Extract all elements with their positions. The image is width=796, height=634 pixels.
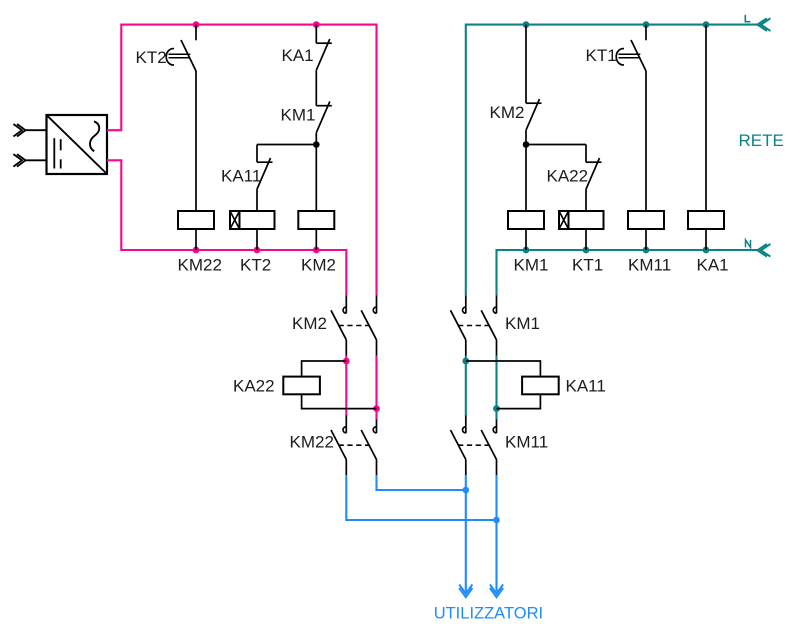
wire KM2 pole 2 to KM22 pole 2 (black upper) bbox=[376, 340, 378, 356]
svg-text:KA11: KA11 bbox=[221, 167, 261, 186]
svg-text:KM2: KM2 bbox=[490, 103, 525, 122]
wire KA11 coil bottom connection bbox=[497, 394, 541, 408]
timer coil KT1 with delay box bbox=[569, 211, 604, 229]
wire KM2 pole 1 to KM22 pole 1 (black upper) bbox=[345, 340, 347, 356]
svg-text:KM2: KM2 bbox=[301, 256, 336, 275]
wire KM2 pole 2 to KM22 pole 2 (magenta) bbox=[375, 356, 377, 420]
wire KM2 pole 2 to KM22 pole 2 (black lower) bbox=[376, 420, 378, 434]
wire KA11 to KT2 coil bbox=[256, 189, 258, 211]
wire blue KM22 pole 2 to load bus bbox=[377, 475, 466, 490]
wire teal L rail (to KM1 pole 1) bbox=[466, 25, 758, 296]
wire KM1 pole 1 to KM11 pole 1 (black upper) bbox=[465, 340, 467, 356]
svg-text:KM1: KM1 bbox=[514, 256, 549, 275]
label N bbox=[746, 240, 751, 248]
input terminal arrow 1 bbox=[26, 129, 47, 131]
wire blue load feeder 2 bbox=[495, 475, 497, 591]
wire KM2 pole 1 to KM22 pole 1 (black lower) bbox=[345, 416, 347, 434]
contact KM1 (NO, auxiliary) bbox=[316, 105, 332, 107]
wire KM22 coil to bottom rail bbox=[195, 229, 197, 250]
input terminal arrow 2 bbox=[26, 159, 47, 161]
coil KA1 bbox=[688, 211, 724, 229]
node load bus junction 1 bbox=[463, 487, 470, 494]
main contact KM1 pole 2 bbox=[496, 295, 498, 313]
wire KT1 coil to N rail bbox=[585, 229, 587, 250]
timed contact KT1 bbox=[645, 25, 647, 41]
main contact KM11 pole 1 bbox=[463, 427, 466, 433]
svg-text:KM1: KM1 bbox=[281, 106, 316, 125]
wire KM1 pole 1 to KM11 pole 1 (black lower) bbox=[465, 416, 467, 434]
main contact KM11 pole 2 bbox=[493, 427, 496, 433]
wire KM1 pole 2 to KM11 pole 2 (black upper) bbox=[496, 340, 498, 356]
svg-text:KM22: KM22 bbox=[178, 256, 222, 275]
svg-text:KA1: KA1 bbox=[697, 256, 729, 275]
L terminal arrow bbox=[757, 18, 767, 31]
wire KM22 pole 2 black tail bbox=[376, 460, 378, 476]
wire KM1 contact to KM2 coil bbox=[315, 133, 317, 211]
node L rail / KT1 branch bbox=[643, 21, 650, 28]
contact KA11 (NO) bbox=[256, 145, 258, 163]
timer coil KT2 with delay box bbox=[240, 211, 275, 229]
wire KM2 coil to bottom rail bbox=[315, 229, 317, 250]
node KA11 coil bottom bbox=[493, 405, 500, 412]
node KA22 branch junction bbox=[523, 141, 530, 148]
wire KA1 coil to N rail bbox=[705, 229, 707, 250]
node bottom rail / KM22 coil bbox=[193, 247, 200, 254]
wire KT2 coil to bottom rail bbox=[256, 229, 258, 250]
main contact KM1 pole 1 bbox=[465, 295, 467, 313]
main contact KM22 pole 2 bbox=[373, 427, 376, 433]
coil KA11 bbox=[522, 377, 559, 395]
wire teal N rail (to KM1 pole 2) bbox=[497, 250, 758, 295]
node N rail / KA1 coil bbox=[703, 247, 710, 254]
node N rail / KM11 coil bbox=[643, 247, 650, 254]
wire KT1 contact to KM11 coil bbox=[645, 71, 647, 211]
node top rail / KT2 branch bbox=[193, 21, 200, 28]
wire KA1 to KM1 contact bbox=[315, 70, 317, 106]
wire KM1 pole 2 to KM11 pole 2 (black lower) bbox=[496, 420, 498, 434]
svg-text:KT1: KT1 bbox=[586, 46, 617, 65]
node bottom rail / KT2 coil bbox=[254, 247, 261, 254]
svg-text:KA22: KA22 bbox=[233, 377, 275, 396]
wire KA22 to KT1 coil bbox=[585, 189, 587, 211]
wire magenta top rail (U1 output to KM2 pole 2) bbox=[107, 25, 377, 296]
node KA22 coil top bbox=[343, 358, 350, 365]
mechanical link KM22 bbox=[339, 444, 369, 446]
svg-text:KM22: KM22 bbox=[290, 433, 334, 452]
svg-text:RETE: RETE bbox=[739, 131, 784, 150]
node load bus junction 2 bbox=[493, 517, 500, 524]
wire KA11 branch horizontal bbox=[257, 144, 316, 146]
svg-text:KT2: KT2 bbox=[240, 256, 271, 275]
wire L rail to KA1 coil bbox=[705, 25, 707, 211]
wire KA22 coil top connection bbox=[302, 361, 347, 377]
wire KM2 contact to KM1 coil bbox=[525, 130, 527, 211]
N terminal arrow bbox=[757, 244, 767, 257]
node KA11 branch junction bbox=[313, 141, 320, 148]
contact KA22 (NO) bbox=[585, 145, 587, 163]
coil KA22 bbox=[283, 377, 320, 395]
wire KT2 contact to KM22 coil bbox=[195, 71, 197, 211]
mechanical link KM11 bbox=[458, 444, 488, 446]
load arrow 1 bbox=[459, 584, 472, 593]
wire KM11 coil to N rail bbox=[645, 229, 647, 250]
label L bbox=[745, 15, 750, 22]
node L rail / KA1 coil branch bbox=[703, 21, 710, 28]
coil KM1 bbox=[508, 211, 544, 229]
main contact KM2 pole 2 bbox=[376, 295, 378, 313]
node L rail / KM2 branch bbox=[523, 21, 530, 28]
node N rail / KT1 coil bbox=[583, 247, 590, 254]
wire KM1 pole 2 to KM11 pole 2 (teal) bbox=[495, 356, 497, 420]
wire KM1 pole 1 to KM11 pole 1 (teal) bbox=[465, 356, 467, 416]
svg-text:KM11: KM11 bbox=[505, 433, 548, 452]
node KA11 coil top bbox=[462, 358, 469, 365]
wire KM11 pole 2 black tail bbox=[496, 460, 498, 476]
svg-text:KT1: KT1 bbox=[572, 256, 603, 275]
power supply U1 (battery inverter DC/AC) bbox=[47, 115, 108, 174]
wire KM22 pole 1 black tail bbox=[345, 460, 347, 476]
svg-text:KM11: KM11 bbox=[628, 256, 671, 275]
timed contact KT2 bbox=[195, 25, 197, 41]
wire KM1 coil to N rail bbox=[525, 229, 527, 250]
svg-text:UTILIZZATORI: UTILIZZATORI bbox=[434, 604, 543, 622]
svg-text:KA1: KA1 bbox=[282, 46, 314, 65]
svg-text:KA11: KA11 bbox=[566, 377, 606, 396]
load arrow 2 bbox=[490, 584, 503, 593]
node bottom rail / KM2 coil bbox=[313, 247, 320, 254]
wire KM11 pole 1 black tail bbox=[465, 460, 467, 476]
wire blue KM22 pole 1 to load bus bbox=[346, 475, 496, 520]
node top rail / KA1 branch bbox=[313, 21, 320, 28]
wire blue load feeder 1 bbox=[465, 475, 467, 591]
coil KM22 bbox=[178, 211, 214, 229]
svg-text:KM1: KM1 bbox=[505, 314, 540, 333]
main contact KM22 pole 1 bbox=[343, 427, 346, 433]
contact KM2 (NO, auxiliary) bbox=[525, 25, 527, 104]
coil KM2 bbox=[298, 211, 334, 229]
coil KM11 bbox=[628, 211, 664, 229]
wire magenta bottom rail (U1 output to KM2 pole 1) bbox=[107, 160, 346, 295]
svg-text:KA22: KA22 bbox=[547, 167, 589, 186]
contact KA1 (NO) bbox=[315, 25, 317, 44]
wire KA22 branch horizontal bbox=[526, 144, 586, 146]
wire KM2 pole 1 to KM22 pole 1 (magenta) bbox=[345, 356, 347, 416]
mechanical link KM1 bbox=[458, 325, 488, 327]
wire KA11 coil top connection bbox=[466, 361, 541, 377]
svg-text:KM2: KM2 bbox=[292, 314, 327, 333]
node KA22 coil bottom bbox=[373, 405, 380, 412]
mechanical link KM2 bbox=[339, 325, 369, 327]
node N rail / KM1 coil bbox=[523, 247, 530, 254]
main contact KM2 pole 1 bbox=[345, 295, 347, 313]
svg-text:KT2: KT2 bbox=[136, 48, 167, 67]
wire KA22 coil bottom connection bbox=[302, 394, 377, 408]
